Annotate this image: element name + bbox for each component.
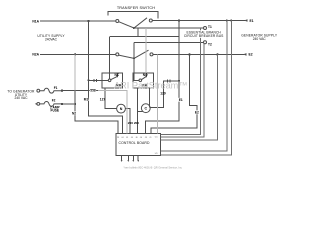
gray wire NO feed from T1 line <box>145 28 147 73</box>
svg-text:F1: F1 <box>54 86 58 90</box>
svg-text:CIRCUIT BREAKER BUS: CIRCUIT BREAKER BUS <box>184 34 224 38</box>
svg-text:206 206: 206 206 <box>128 121 139 125</box>
svg-text:TRANSFER SWITCH: TRANSFER SWITCH <box>117 6 155 10</box>
pole 1 pivot <box>133 27 135 29</box>
node E2-190 <box>188 53 190 55</box>
svg-text:T2: T2 <box>208 43 212 47</box>
fuse F1 <box>40 88 62 93</box>
svg-text:E1: E1 <box>250 19 254 23</box>
transfer switch pole 2 left contact <box>116 53 119 56</box>
wire 558 connector into relay box <box>89 79 103 81</box>
node E1-179 <box>178 19 180 21</box>
svg-text:N2: N2 <box>72 111 76 115</box>
wire coil N right <box>125 109 130 134</box>
wire NR stub to box top <box>145 73 147 76</box>
wire 558 dark part <box>62 90 98 92</box>
wire N1A drop to relay MR <box>88 21 90 80</box>
svg-text:F2: F2 <box>52 99 56 103</box>
wire N2 to board <box>75 91 118 134</box>
wire NC feed horizontal <box>110 36 179 38</box>
svg-text:FUSE: FUSE <box>51 108 60 112</box>
svg-text:ARI PartStream™: ARI PartStream™ <box>114 81 188 91</box>
terminal E1 arrow <box>244 19 248 22</box>
wire 558 inside box to NC circle <box>102 79 108 81</box>
pole 2 pivot <box>133 57 135 59</box>
control board box <box>116 134 161 156</box>
wire MR contact stub to box top <box>116 73 118 76</box>
svg-text:T1: T1 <box>208 25 212 29</box>
fuse F2 terminal <box>37 103 40 106</box>
pole 2 right contact <box>150 53 153 56</box>
wire stub 138 <box>137 28 139 37</box>
node dot at relay feed <box>87 79 89 81</box>
svg-text:C: C <box>144 107 147 111</box>
fuse F1 terminal <box>37 89 40 92</box>
transfer switch bracket <box>108 12 158 19</box>
wire T2 <box>134 41 203 43</box>
wire E1-sense 179 to board <box>146 21 180 134</box>
gray wire 558 under relays <box>98 91 127 134</box>
node 129-179 <box>178 80 180 82</box>
board bottom stubs <box>122 156 139 161</box>
pole 1 blade open <box>134 18 147 28</box>
svg-text:M1: M1 <box>84 97 89 101</box>
pole 2 blade closed <box>119 55 134 58</box>
node N2A junction <box>74 53 76 55</box>
coil N circle <box>117 104 126 113</box>
svg-text:E2: E2 <box>195 111 199 115</box>
svg-text:N1A: N1A <box>32 19 39 23</box>
wire T2 sense drop <box>161 43 204 137</box>
wire E2 line <box>153 53 244 55</box>
terminal T2 circle <box>204 41 207 44</box>
node F2 <box>61 103 63 105</box>
wire NC feed drop into relay MR box <box>109 37 111 80</box>
wire M1 to board <box>89 80 123 133</box>
svg-text:E1: E1 <box>179 98 183 102</box>
wire 127 from relay MR <box>105 88 117 109</box>
stub arrowheads <box>121 160 139 162</box>
label ESSENTIAL BRANCH CIRCUIT BREAKER BUS <box>182 30 227 38</box>
svg-text:240 VAC: 240 VAC <box>253 37 267 41</box>
svg-text:NC: NC <box>115 73 120 77</box>
wire pole 2 common riser T2 <box>133 42 135 73</box>
wire coil C left riser <box>137 88 139 134</box>
gray wire E2 to board <box>156 54 158 133</box>
wire F2 to N2 drop <box>62 103 75 105</box>
node E1-227 <box>226 19 228 21</box>
wire E1 sense drop B <box>161 21 232 156</box>
svg-text:NO: NO <box>143 73 148 77</box>
wire T1 from pole 1 pivot <box>134 27 203 29</box>
svg-text:N: N <box>120 107 123 111</box>
pole 1 blade closed <box>119 22 134 28</box>
node N2 drop <box>74 103 76 105</box>
wire F2-sense 190 to board <box>151 54 197 133</box>
connector ticks <box>94 79 97 82</box>
wire T1 sense drop <box>161 28 201 135</box>
relay NR NO contact circle <box>139 79 142 82</box>
relay MR box <box>102 73 123 88</box>
relay MR NC dot <box>116 76 118 78</box>
svg-text:E2: E2 <box>249 53 253 57</box>
relay NR NO dot <box>145 76 147 78</box>
connector ticks 129 <box>167 79 170 82</box>
svg-text:129: 129 <box>160 91 166 95</box>
node E2-217 <box>216 53 218 55</box>
transfer switch pole 1 left contact <box>116 20 119 23</box>
node N1A junction <box>87 20 89 22</box>
wire E1 line <box>152 20 245 22</box>
relay MR NC contact circle <box>108 79 111 82</box>
svg-text:558: 558 <box>90 89 96 93</box>
wire coil C left stub <box>138 111 143 113</box>
relay MR NC blade <box>111 76 118 79</box>
svg-text:240VAC: 240VAC <box>45 38 58 42</box>
wire E2 sense drop <box>161 54 218 139</box>
terminal E2 arrow <box>243 53 247 56</box>
node E1-231 <box>230 19 232 21</box>
terminal T1 circle <box>204 27 207 30</box>
svg-text:CONTROL BOARD: CONTROL BOARD <box>119 141 150 145</box>
coil C circle <box>141 104 150 113</box>
relay NR box <box>133 73 154 88</box>
node F1 <box>61 90 63 92</box>
svg-text:127: 127 <box>100 98 106 102</box>
wire N2A utility L2 <box>40 53 116 55</box>
wire pivot riser inside box to NO circle <box>134 73 139 80</box>
arrow to generator row2 <box>35 103 37 105</box>
relay NR NO blade <box>141 76 146 79</box>
svg-text:*see bulletin 80C-4601-B QR G: *see bulletin 80C-4601-B QR General Serv… <box>124 165 183 169</box>
wire coil C right riser from box <box>149 88 151 108</box>
wire E1 sense drop A <box>161 21 227 151</box>
wire 129 from coil C <box>150 81 179 108</box>
svg-text:240 VAC: 240 VAC <box>15 96 29 100</box>
wire N1A utility L1 <box>40 20 116 22</box>
svg-text:N2A: N2A <box>32 53 39 57</box>
pole 1 right contact <box>149 19 152 22</box>
pole 2 blade open <box>134 50 149 58</box>
fuse F2 <box>40 102 62 107</box>
gray wire N2A to fuse row <box>74 54 76 90</box>
